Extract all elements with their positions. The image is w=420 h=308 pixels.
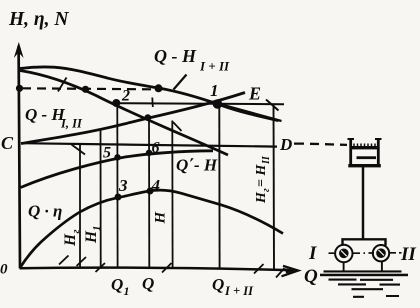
svg-text:I: I xyxy=(308,243,317,264)
svg-text:I + II: I + II xyxy=(199,59,230,74)
svg-text:H: H xyxy=(153,211,169,225)
svg-text:H, η, N: H, η, N xyxy=(8,9,69,30)
svg-text:1: 1 xyxy=(91,226,103,232)
svg-text:3: 3 xyxy=(118,176,128,195)
svg-text:1: 1 xyxy=(124,284,130,298)
svg-text:H: H xyxy=(83,230,100,244)
svg-text:г: г xyxy=(70,229,82,233)
svg-text:6: 6 xyxy=(152,140,160,157)
svg-text:г: г xyxy=(261,188,272,192)
svg-text:Q · η: Q · η xyxy=(28,202,62,221)
svg-text:D: D xyxy=(279,135,292,154)
svg-text:II: II xyxy=(261,155,272,165)
svg-text:Q - H: Q - H xyxy=(154,46,197,66)
svg-text:0: 0 xyxy=(0,262,8,278)
svg-text:I, II: I, II xyxy=(60,117,83,131)
svg-text:2: 2 xyxy=(121,88,130,105)
svg-text:1: 1 xyxy=(210,81,219,100)
svg-text:Q: Q xyxy=(304,266,318,287)
svg-text:Q: Q xyxy=(142,274,154,293)
svg-text:= H: = H xyxy=(254,164,269,187)
svg-text:I + II: I + II xyxy=(224,284,254,298)
svg-text:Q΄- H: Q΄- H xyxy=(176,156,218,175)
svg-text:4: 4 xyxy=(151,176,161,195)
svg-text:C: C xyxy=(1,133,14,153)
svg-text:E: E xyxy=(248,84,261,104)
svg-text:Q: Q xyxy=(111,275,123,294)
svg-text:II: II xyxy=(400,244,416,265)
svg-text:Q: Q xyxy=(212,275,224,294)
svg-text:Q - H: Q - H xyxy=(25,105,65,124)
svg-text:5: 5 xyxy=(103,145,111,162)
svg-text:H: H xyxy=(62,233,79,247)
